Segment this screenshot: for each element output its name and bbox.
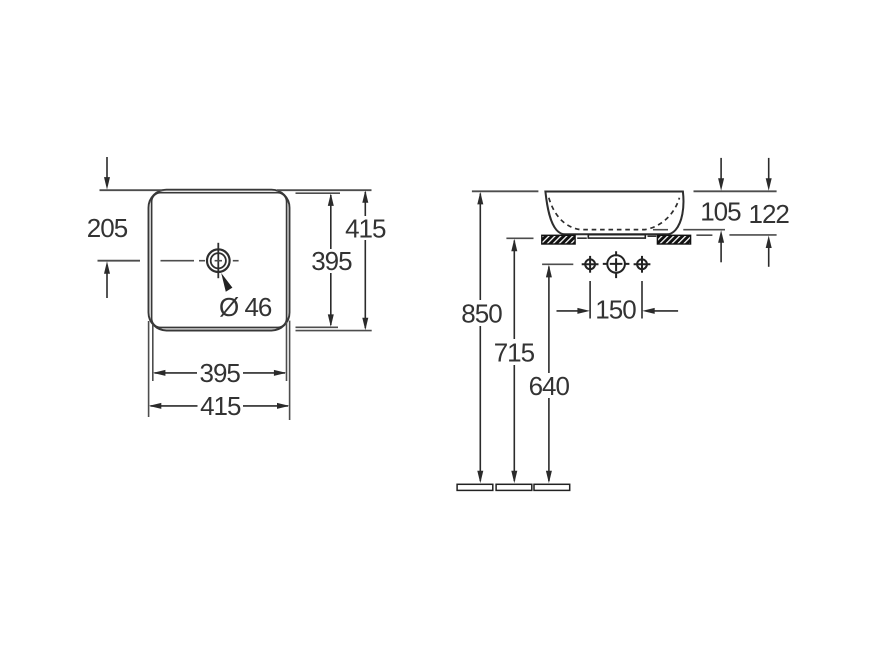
floor bar 3 xyxy=(534,484,570,490)
drain hole outer circle xyxy=(207,249,230,272)
dimension 640: line + arrows xyxy=(546,265,552,483)
svg-text:415: 415 xyxy=(200,391,241,421)
dimension 122: lower arrow (pointing up) xyxy=(766,236,772,267)
extension line for 395 top (inner rim) xyxy=(296,192,341,194)
top extension line left (rim level, for 850) xyxy=(472,190,539,192)
dimension 205: lower extension line (center line to the left) xyxy=(98,260,141,262)
dimension 395 horizontal: line + arrows xyxy=(153,370,287,376)
fixing hole right (cross symbol) xyxy=(634,256,651,273)
extension line for 640 (fixing hole level) xyxy=(542,263,573,265)
extension line for 122 (counter level) xyxy=(729,234,776,236)
base underside dash left xyxy=(577,237,587,239)
extension line below right fixing hole xyxy=(641,281,643,319)
basin inner bowl (dashed) xyxy=(549,198,680,230)
right extension line (top, shared 395/415) xyxy=(277,189,372,191)
fixing hole left (cross symbol) xyxy=(582,256,599,273)
dimension 205: top extension line (tangent to basin top) xyxy=(100,189,164,191)
dimension 105: lower arrow (pointing up) xyxy=(718,230,724,262)
extension line for 395 bottom (inner rim) xyxy=(296,326,339,328)
extension line for 715 (base underside) xyxy=(506,237,533,239)
bottom extension line left inner (for 395) xyxy=(152,325,154,381)
svg-text:640: 640 xyxy=(529,371,570,401)
drain label leader arrow xyxy=(221,273,232,292)
dimension 150: right arrow (pointing left) xyxy=(642,308,678,314)
counter surface dash right of hatch xyxy=(696,234,712,236)
extension line below left fixing hole xyxy=(589,281,591,319)
floor bar 2 xyxy=(496,484,532,490)
svg-text:105: 105 xyxy=(700,196,741,226)
bottom extension line right outer (for 415) xyxy=(289,321,291,420)
dimension 205: upper arrow (pointing down) xyxy=(104,157,110,190)
base underside dash right xyxy=(648,235,657,237)
svg-text:395: 395 xyxy=(200,358,241,388)
extension line for 415 bottom (outer rim) xyxy=(296,330,372,332)
drain vertical center line xyxy=(217,243,219,278)
drain hole inner circle xyxy=(211,253,226,268)
svg-text:150: 150 xyxy=(595,295,636,325)
dimension 205: lower arrow (pointing up) xyxy=(104,261,110,298)
dimension 395 vertical: line + arrows xyxy=(328,193,334,327)
svg-text:415: 415 xyxy=(345,213,386,243)
tap hole center (cross symbol) xyxy=(603,251,630,278)
svg-text:205: 205 xyxy=(87,213,128,243)
dimension 415 horizontal: line + arrows xyxy=(149,403,290,409)
countertop hatch right xyxy=(657,235,690,244)
dimension 105: upper arrow (pointing down) xyxy=(718,158,724,191)
basin profile (side view) xyxy=(545,192,683,235)
svg-text:715: 715 xyxy=(494,337,535,367)
dimension 415 vertical: line + arrows xyxy=(362,190,368,330)
extension line for 105 (inner bowl bottom) xyxy=(653,229,725,231)
dimension 850: line + arrows xyxy=(477,192,483,483)
dimension 715: line + arrows xyxy=(511,239,517,484)
top extension line right (rim level, for 105/122) xyxy=(694,190,777,192)
bottom extension line left outer (for 415) xyxy=(148,321,150,417)
basin base plate xyxy=(588,235,645,238)
svg-text:850: 850 xyxy=(461,299,502,329)
dimension 150: left arrow (pointing right) xyxy=(557,308,590,314)
basin inner rim (plan view inner rounded square) xyxy=(152,193,287,328)
dimension 122: upper arrow (pointing down) xyxy=(766,158,772,191)
countertop hatch left xyxy=(542,235,575,244)
svg-text:395: 395 xyxy=(311,246,352,276)
basin outer rim (plan view rounded square) xyxy=(149,190,290,331)
bottom extension line right inner (for 395) xyxy=(286,322,288,381)
svg-text:122: 122 xyxy=(749,199,790,229)
drain horizontal center line dashes xyxy=(161,260,239,262)
svg-text:Ø 46: Ø 46 xyxy=(219,292,272,322)
floor bar 1 xyxy=(457,484,493,490)
